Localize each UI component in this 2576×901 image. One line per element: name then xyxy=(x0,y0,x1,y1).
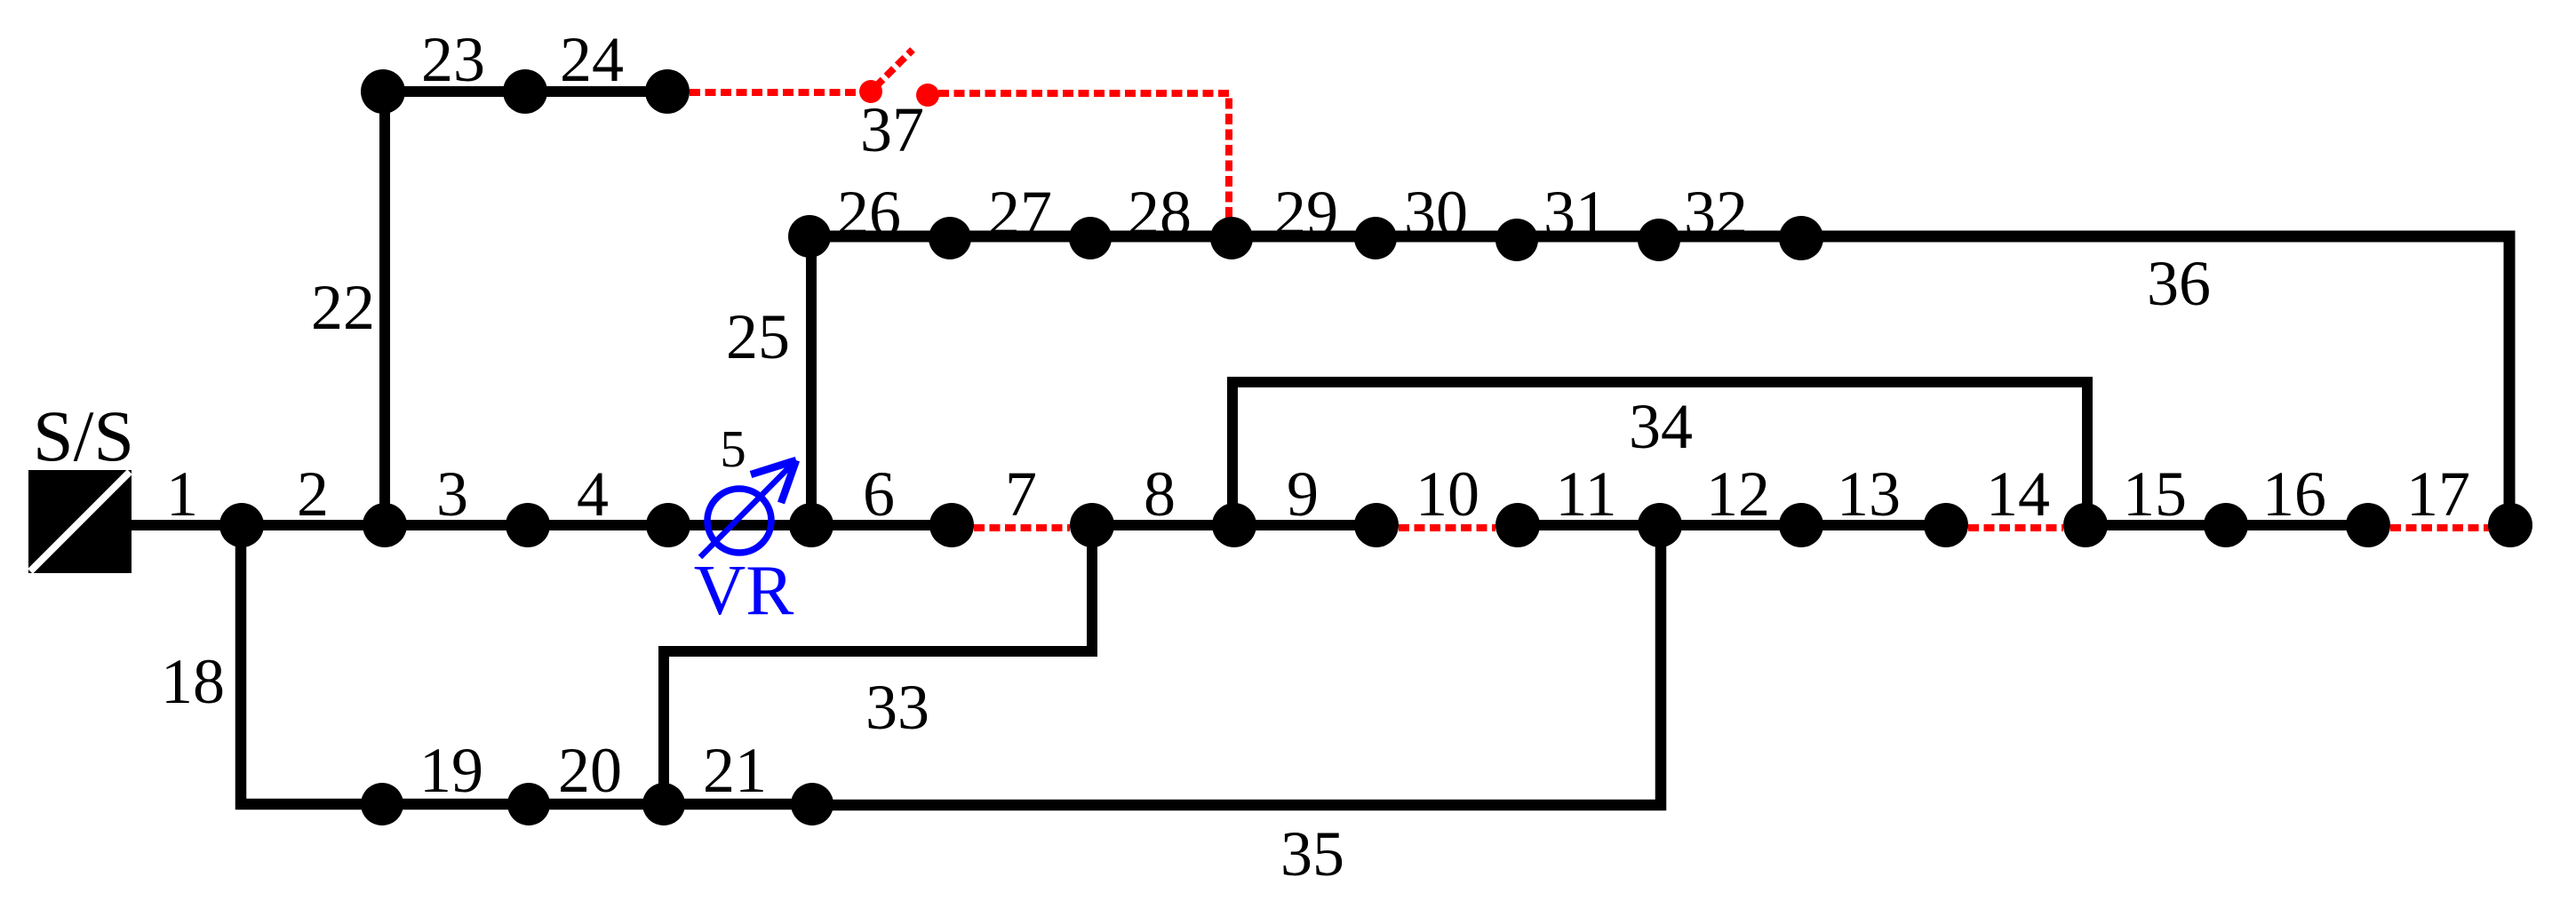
svg-text:32: 32 xyxy=(1684,178,1748,249)
svg-text:10: 10 xyxy=(1416,458,1479,530)
svg-text:15: 15 xyxy=(2123,458,2187,530)
svg-text:13: 13 xyxy=(1837,458,1901,530)
svg-text:27: 27 xyxy=(988,178,1052,249)
svg-text:2: 2 xyxy=(297,458,329,530)
svg-text:16: 16 xyxy=(2262,458,2326,530)
svg-text:33: 33 xyxy=(865,672,929,743)
svg-text:6: 6 xyxy=(863,458,895,530)
svg-text:34: 34 xyxy=(1629,391,1693,462)
svg-text:26: 26 xyxy=(837,178,901,249)
svg-text:30: 30 xyxy=(1404,178,1468,249)
svg-text:3: 3 xyxy=(436,458,468,530)
svg-text:18: 18 xyxy=(161,646,225,717)
svg-text:23: 23 xyxy=(421,24,485,95)
svg-text:11: 11 xyxy=(1555,458,1616,530)
svg-text:19: 19 xyxy=(419,735,483,806)
svg-text:37: 37 xyxy=(860,94,924,165)
svg-text:36: 36 xyxy=(2147,248,2211,319)
svg-text:28: 28 xyxy=(1128,178,1192,249)
svg-text:21: 21 xyxy=(703,735,767,806)
svg-text:8: 8 xyxy=(1144,458,1176,530)
svg-text:1: 1 xyxy=(166,458,198,530)
svg-text:24: 24 xyxy=(560,24,624,95)
svg-text:20: 20 xyxy=(558,735,622,806)
svg-text:9: 9 xyxy=(1287,458,1319,530)
svg-text:31: 31 xyxy=(1543,178,1607,249)
svg-text:12: 12 xyxy=(1706,458,1770,530)
svg-text:VR: VR xyxy=(694,550,794,630)
svg-text:25: 25 xyxy=(726,301,790,372)
svg-text:17: 17 xyxy=(2406,458,2470,530)
svg-text:7: 7 xyxy=(1005,458,1037,530)
svg-text:22: 22 xyxy=(311,272,375,343)
svg-text:29: 29 xyxy=(1274,178,1338,249)
svg-text:35: 35 xyxy=(1280,818,1344,889)
svg-text:5: 5 xyxy=(720,419,746,478)
svg-text:14: 14 xyxy=(1986,458,2050,530)
svg-text:S/S: S/S xyxy=(33,395,134,476)
svg-text:4: 4 xyxy=(577,458,609,530)
